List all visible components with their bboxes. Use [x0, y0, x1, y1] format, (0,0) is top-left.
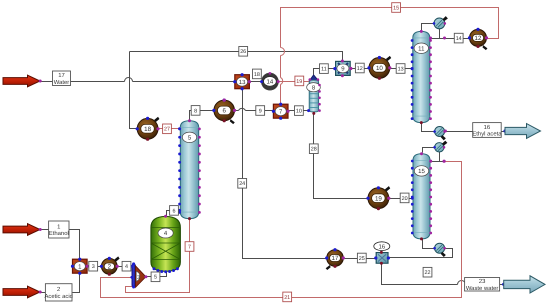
- svg-text:19: 19: [375, 195, 382, 202]
- svg-text:19: 19: [296, 79, 302, 85]
- svg-text:16: 16: [378, 243, 385, 250]
- svg-text:28: 28: [311, 147, 317, 153]
- svg-text:16: 16: [484, 124, 491, 131]
- svg-text:5: 5: [154, 275, 157, 281]
- svg-text:2: 2: [108, 264, 112, 271]
- svg-text:Ethanol: Ethanol: [49, 230, 69, 237]
- svg-text:6: 6: [222, 108, 226, 115]
- svg-text:17: 17: [58, 72, 65, 79]
- svg-text:14: 14: [456, 36, 462, 42]
- svg-text:10: 10: [296, 109, 302, 115]
- svg-text:2: 2: [57, 286, 60, 293]
- svg-text:9: 9: [259, 108, 262, 114]
- svg-text:8: 8: [194, 108, 197, 114]
- svg-text:20: 20: [402, 196, 408, 202]
- svg-text:3: 3: [92, 264, 95, 270]
- svg-text:26: 26: [240, 49, 246, 55]
- svg-text:24: 24: [239, 181, 245, 187]
- svg-text:1: 1: [57, 223, 60, 230]
- svg-text:15: 15: [393, 5, 399, 11]
- svg-text:Acetic acid: Acetic acid: [44, 293, 72, 300]
- svg-text:11: 11: [418, 45, 425, 52]
- svg-text:4: 4: [125, 264, 128, 270]
- svg-text:18: 18: [144, 126, 151, 133]
- svg-text:11: 11: [321, 67, 327, 73]
- svg-text:13: 13: [239, 79, 246, 86]
- svg-text:12: 12: [357, 66, 363, 72]
- svg-text:25: 25: [359, 256, 365, 262]
- svg-text:3: 3: [137, 275, 140, 281]
- svg-text:18: 18: [254, 72, 260, 78]
- svg-text:21: 21: [284, 295, 290, 301]
- svg-text:Waste water: Waste water: [466, 285, 499, 292]
- svg-text:Water: Water: [54, 79, 70, 86]
- svg-text:22: 22: [425, 270, 431, 276]
- svg-text:12: 12: [475, 35, 482, 42]
- svg-text:23: 23: [479, 278, 486, 285]
- svg-text:6: 6: [173, 208, 176, 214]
- svg-text:17: 17: [332, 255, 339, 262]
- svg-text:14: 14: [267, 78, 274, 85]
- svg-text:10: 10: [376, 65, 383, 72]
- svg-text:15: 15: [418, 168, 425, 175]
- svg-text:27: 27: [164, 127, 170, 133]
- svg-text:Ethyl aceta: Ethyl aceta: [472, 131, 502, 138]
- svg-text:13: 13: [398, 66, 404, 72]
- svg-text:7: 7: [188, 244, 191, 250]
